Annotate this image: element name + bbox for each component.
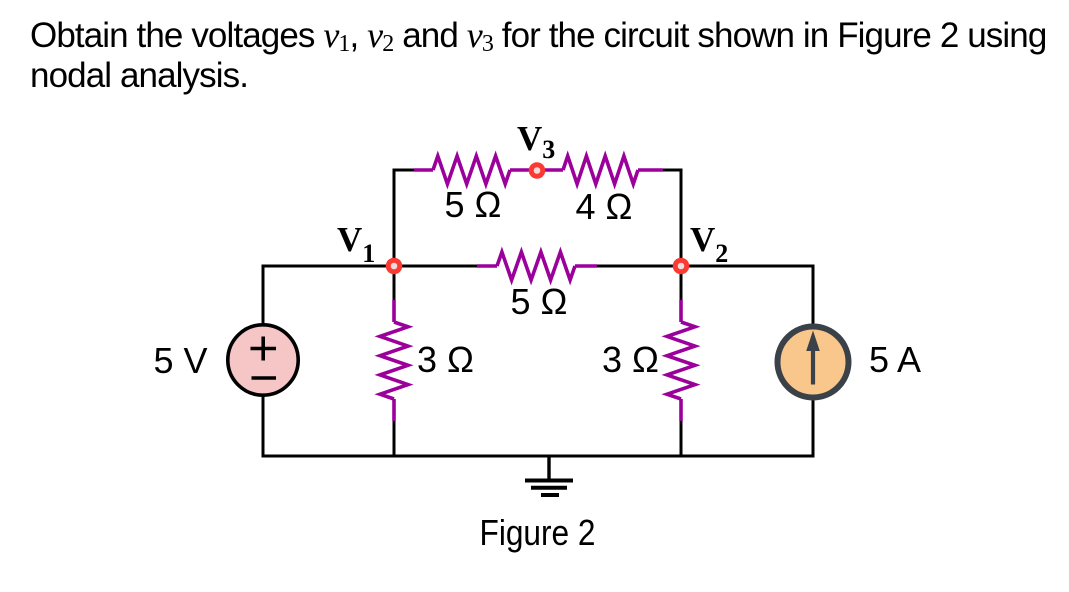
wire: left 3ohm branch upper black segment	[393, 266, 396, 302]
wire: left 3ohm branch lower black segment	[393, 418, 396, 456]
wire: left branch above voltage source	[262, 265, 265, 326]
wire: top rail right black segment (R 4ohm lead to V2 riser corner)	[661, 170, 681, 172]
wire: right branch below current source	[812, 399, 815, 457]
svg-text:5 Ω: 5 Ω	[445, 184, 502, 225]
wire: middle rail left segment (left branch to R 5ohm middle)	[263, 265, 479, 268]
wire: middle rail right segment (R 5ohm middle to right branch)	[595, 265, 813, 268]
wire: left riser from node V1 up to top rail	[393, 170, 396, 266]
problem statement text	[30, 15, 1046, 96]
svg-text:V1: V1	[337, 220, 375, 268]
svg-text:5 V: 5 V	[153, 340, 207, 381]
resistor 3 ohm (left vertical, at node V1)	[380, 300, 408, 421]
wire: right branch above current source	[812, 265, 815, 326]
svg-text:Figure 2: Figure 2	[480, 512, 596, 553]
ground (reference node symbol)	[525, 456, 573, 495]
wire: bottom rail (reference node)	[262, 455, 815, 458]
node V3 (junction dot)	[529, 162, 546, 179]
svg-text:3 Ω: 3 Ω	[602, 339, 659, 380]
svg-text:V3: V3	[517, 119, 555, 164]
current source 5A (independent source, right branch)	[778, 327, 849, 398]
wire: right riser from node V2 up to top rail	[680, 170, 683, 266]
node V1 (junction dot)	[386, 258, 403, 275]
node V2 (junction dot)	[673, 258, 690, 275]
wire: top rail left black segment (V1 riser corner to R 5ohm lead)	[394, 170, 416, 172]
resistor 3 ohm (right vertical, at node V2)	[667, 300, 695, 421]
svg-text:3 Ω: 3 Ω	[417, 339, 474, 380]
resistor 5 ohm (middle, between V1 and V2)	[477, 252, 597, 280]
svg-text:V2: V2	[690, 220, 728, 268]
svg-text:5 Ω: 5 Ω	[511, 281, 568, 322]
wire: left branch below voltage source	[262, 395, 265, 457]
resistor 5 ohm (top left, between V1 and V3)	[414, 156, 537, 184]
svg-text:4 Ω: 4 Ω	[576, 186, 633, 227]
wire: right 3ohm branch lower black segment	[680, 418, 683, 456]
wire: right 3ohm branch upper black segment	[680, 266, 683, 302]
svg-text:5 A: 5 A	[869, 339, 921, 380]
voltage source 5V (independent source, left branch)	[228, 325, 298, 395]
resistor 4 ohm (top right, between V3 and V2)	[537, 156, 663, 184]
